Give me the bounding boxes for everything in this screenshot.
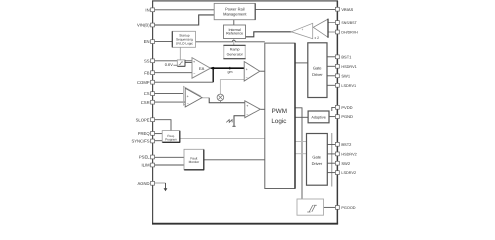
wire VIN(B) to power block [155,15,215,25]
svg-text:PSEL: PSEL [139,155,150,160]
node junction at EA output [212,67,215,70]
pin PVDD [335,105,352,110]
pin COMP [137,80,154,85]
pin DH/DRVH [335,30,358,34]
svg-text:+: + [187,94,189,98]
svg-text:Reference: Reference [226,32,243,36]
pin VBIAS [335,7,353,12]
svg-text:PVDD: PVDD [341,105,352,110]
multiplier node [217,94,224,103]
wire ILIM to Fault Monitor box [155,164,184,166]
svg-text:EA: EA [199,66,205,71]
pin SW2 [335,161,350,166]
wire SYNC/FS to Freq Program box [155,140,163,142]
pin ILIM [141,163,154,168]
wire Drive Stage 1 to BST1 [327,56,335,58]
pin EN [144,39,155,44]
wire EN to startup block [155,41,173,43]
wire PVDD pin into Adaptive box [332,107,336,111]
svg-text:PGND: PGND [341,114,353,119]
wire comp1 output to PWM logic [260,70,265,72]
svg-text:BST1: BST1 [341,54,352,59]
wire Drive Stage 2 to HSDRV2 [327,153,335,155]
wire PWM logic to Drive Stage 2 lower (light) [295,153,307,155]
pin LSDRV2 [335,171,356,175]
block: Fault Monitor [184,149,204,170]
svg-text:DH/DRVH: DH/DRVH [341,31,358,35]
svg-text:VIN(B): VIN(B) [137,23,150,28]
svg-text:IN: IN [145,7,149,12]
svg-text:gm: gm [228,70,233,74]
svg-text:COMP: COMP [137,80,150,85]
wire PWM logic to Drive Stage 1 [295,62,308,64]
svg-text:AGND: AGND [137,181,149,186]
pin SS [144,58,154,63]
wire PSEL to Fault Monitor box [155,156,184,158]
svg-text:ILIM: ILIM [141,163,150,168]
pin SLOPE [136,117,155,122]
wire Drive Stage 2 to LSDRV2 [327,172,335,174]
wire right amp output to Internal Reference [246,32,292,37]
wire CS amp output to multiplier [201,97,209,99]
pin PSEL [139,155,155,160]
pin PGND [335,114,353,119]
svg-text:Ramp: Ramp [230,47,240,51]
block: PGOOD hysteresis comparator [297,199,324,215]
svg-text:EN: EN [144,39,150,44]
pin HSDRV1 [335,64,356,68]
pin LSDRV1 [335,83,356,87]
wire Adaptive box to PGND [329,116,335,118]
wire comp2 output to PWM logic [260,108,265,110]
wire multiplier to comp2 plus [209,98,245,103]
svg-text:FREQ: FREQ [138,131,150,136]
svg-text:Driver: Driver [312,72,323,77]
wire PWM logic to Drive Stage 2 upper (light) [295,141,307,143]
svg-text:+: + [246,67,248,71]
node tick on EA output wire [229,67,231,70]
IC outer boundary [152,1,338,224]
pin FB [144,70,154,75]
wire DH/DRVH pin to right amp [328,31,335,33]
op-amp right current sense amp (two cascaded left-pointing triangles) [291,19,328,40]
block: Drive Stage 2 [307,134,328,186]
svg-text:LSDRV1: LSDRV1 [341,84,356,88]
svg-text:+: + [193,60,195,64]
wire AGND with ground arrow [155,183,168,191]
svg-text:Generator: Generator [227,52,244,56]
svg-text:−: − [246,76,248,80]
block: Internal Reference [224,25,246,39]
wire multiplier up to comp1 minus (light) [220,80,244,95]
wire 0.6V ref box to EA [185,62,192,64]
svg-text:PGOOD: PGOOD [341,206,355,210]
wire IN to power block [155,9,215,11]
svg-text:x 2: x 2 [315,36,320,40]
wire PWM logic to PGOOD comparator [295,108,302,199]
wire FB to EA [155,72,192,74]
wire EA output to comp1 (thick) [211,67,245,69]
svg-text:Management: Management [223,11,247,16]
svg-text:+: + [246,104,248,108]
svg-text:HSDRV1: HSDRV1 [341,65,356,69]
svg-text:Gate: Gate [312,155,321,160]
wire Drive Stage 2 to SW2 [327,162,335,164]
block: PWM Logic [265,43,295,188]
wire startup block down to ref box [179,47,181,60]
wire CS to CS amp [155,92,184,94]
pin PGOOD [335,206,355,210]
svg-text:SS: SS [144,58,150,63]
svg-text:−: − [193,72,195,76]
pin BST1 [335,54,352,59]
block: Power Rail Management [214,3,255,19]
svg-text:CS: CS [144,91,150,96]
reference box 0.6V [177,60,185,66]
comparator PWM comp2 [245,101,260,118]
svg-text:Gate: Gate [313,66,322,71]
svg-text:0.6V: 0.6V [165,62,173,67]
svg-text:Logic: Logic [271,118,286,125]
wire FREQ to Freq Program box [155,133,163,135]
svg-text:Monitor: Monitor [189,160,201,164]
block: Startup Sequencing UVLO Logic [172,31,195,47]
wire SNS/BST pin to right amp [328,22,335,24]
wire Drive Stage 1 to LSDRV1 [327,84,335,86]
svg-text:CSR: CSR [141,100,150,105]
svg-text:SNS/BST: SNS/BST [341,21,357,25]
pin SW1 [335,73,350,78]
pin FREQ [138,131,155,136]
pin BST2 [335,142,352,147]
wire Drive Stage 2 to BST2 [327,144,335,146]
svg-text:SLOPE: SLOPE [136,117,150,122]
svg-text:BST2: BST2 [341,142,352,147]
wire SLOPE down into Freq Program box [155,120,171,131]
svg-text:−: − [187,102,189,106]
pin AGND [137,181,154,186]
svg-text:VBIAS: VBIAS [341,7,353,12]
block: Drive Stage 1 [308,43,327,98]
wire PWM logic to Adaptive box [295,116,308,118]
svg-text:HSDRV2: HSDRV2 [341,152,356,156]
wire Drive Stage 1 to SW1 [327,75,335,77]
svg-text:+: + [302,28,304,32]
block: Ramp Generator [223,45,245,59]
svg-text:−: − [246,112,248,116]
pin CS [144,91,155,96]
svg-text:Driver: Driver [312,161,323,166]
block: Freq Program [162,131,180,143]
wire SS to EA [155,60,192,62]
svg-text:Program: Program [165,137,177,141]
svg-text:PWM: PWM [272,108,287,115]
op-amp EA error amplifier [192,58,211,79]
pin CSR [141,100,155,105]
wire Freq Program to PWM logic (light) [180,137,265,139]
svg-text:UVLO Logic: UVLO Logic [176,42,194,46]
block: Adaptive dead-time box [308,111,329,123]
wire CSR to CS amp [155,101,186,103]
op-amp CS current sense amplifier (doubled outline) [183,86,202,107]
wire startup to PWM logic (hop over reference chain) [196,40,265,42]
wire power block down to Internal Reference [233,20,235,26]
svg-text:SW2: SW2 [341,161,350,166]
pin IN [145,7,154,12]
wire PGOOD comparator to PGOOD pin [324,206,336,208]
wire Internal Reference down to Ramp Generator [233,39,235,47]
svg-text:SYNC/FS: SYNC/FS [131,139,149,144]
wire rail vertical beside Drive Stage 2 [331,133,333,187]
pin SNS/BST [335,21,357,25]
pin HSDRV2 [335,152,356,156]
svg-text:Adaptive: Adaptive [311,116,325,120]
pin SYNC/FS [131,139,154,144]
wire COMP pin [155,81,214,83]
pin VIN(B) [137,23,154,28]
wire COMP node vertical (thick) [212,68,214,82]
wire Drive Stage 1 to HSDRV1 [327,65,335,67]
svg-text:LSDRV2: LSDRV2 [341,171,356,175]
wire power block to VBIAS [255,9,335,11]
wire Fault Monitor to PWM logic [204,159,265,161]
wire comp2 minus to ramp symbol [234,116,245,127]
comparator PWM comp1 [244,62,260,82]
svg-text:SW1: SW1 [341,73,350,78]
svg-text:FB: FB [144,70,150,75]
ramp sawtooth symbol at comp2 [226,120,235,127]
